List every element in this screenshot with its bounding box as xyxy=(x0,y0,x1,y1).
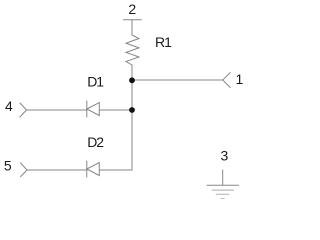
svg-text:2: 2 xyxy=(128,1,136,17)
svg-text:4: 4 xyxy=(5,98,13,114)
svg-text:5: 5 xyxy=(4,157,12,173)
svg-text:1: 1 xyxy=(236,71,244,87)
svg-text:D2: D2 xyxy=(87,134,104,150)
svg-text:D1: D1 xyxy=(87,74,104,90)
svg-text:3: 3 xyxy=(221,148,229,164)
svg-text:R1: R1 xyxy=(155,34,172,50)
